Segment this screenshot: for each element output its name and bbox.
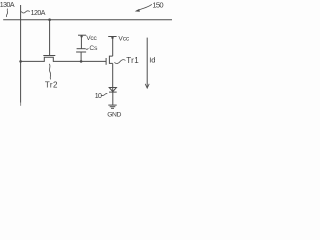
leader for 130A xyxy=(6,9,7,17)
wire: scan line (horizontal top line) xyxy=(3,19,172,21)
svg-text:Vcc: Vcc xyxy=(118,36,129,43)
leader for Tr2 xyxy=(49,64,50,80)
junction dot: Cs branch x row wire xyxy=(80,60,83,63)
junction dot: data line x row wire xyxy=(19,60,22,63)
svg-text:150: 150 xyxy=(152,1,163,10)
reference arrow for 150 xyxy=(137,4,152,10)
leader for 10 xyxy=(101,94,107,96)
wire: row wire left segment (data line to Tr2) xyxy=(21,60,45,62)
power symbol Vcc (right) T-bar xyxy=(108,36,116,38)
leader for Cs xyxy=(86,47,89,50)
current arrow Id xyxy=(146,38,148,87)
svg-text:Id: Id xyxy=(149,56,155,65)
svg-text:GND: GND xyxy=(107,111,121,118)
capacitor Cs lower stem xyxy=(80,52,82,61)
wire: row wire right segment (Tr2 to Tr1 gate) xyxy=(53,60,106,62)
svg-text:120A: 120A xyxy=(31,10,46,17)
diode 10 (light emitting element) triangle xyxy=(109,88,116,92)
transistor Tr2 gate bar xyxy=(43,55,55,57)
wire: Tr2 gate lead up to scan line xyxy=(49,20,51,56)
svg-text:130A: 130A xyxy=(0,2,15,9)
capacitor Cs upper plate xyxy=(77,48,86,50)
svg-text:10: 10 xyxy=(95,93,102,100)
svg-text:Vcc: Vcc xyxy=(86,35,97,42)
wire: Tr1 drain stem from Vcc xyxy=(112,38,114,56)
svg-text:Cs: Cs xyxy=(89,45,98,52)
svg-text:Tr2: Tr2 xyxy=(45,80,58,89)
wire: data line 120A (vertical left line) xyxy=(20,5,22,103)
wire: Tr1 source stem down to diode xyxy=(112,63,114,92)
capacitor Cs upper stem xyxy=(80,36,82,48)
svg-text:Tr1: Tr1 xyxy=(126,56,139,65)
junction dot: gate lead x scan line xyxy=(48,18,51,21)
capacitor Cs lower plate xyxy=(76,51,86,53)
power symbol Vcc (left) T-bar xyxy=(78,34,86,36)
leader for 120A xyxy=(21,11,30,13)
wire: diode cathode stem to ground xyxy=(112,92,114,105)
diode cathode bar xyxy=(109,91,117,93)
ground symbol xyxy=(108,104,116,106)
junction dot below right Vcc bar xyxy=(111,37,113,39)
transistor Tr1 (channel bump) xyxy=(109,56,112,63)
transistor Tr1 gate bar xyxy=(105,58,107,65)
leader for Tr1 xyxy=(114,60,125,64)
transistor Tr2 (channel bump) xyxy=(44,57,53,62)
junction dot below left Vcc bar xyxy=(80,35,82,37)
